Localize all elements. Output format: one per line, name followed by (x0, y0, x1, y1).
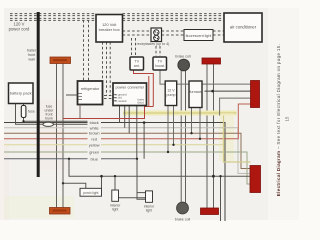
svg-text:yellow: yellow (89, 142, 100, 147)
svg-text:trailer: trailer (27, 49, 37, 53)
svg-text:refrigerator: refrigerator (81, 87, 100, 91)
svg-text:(four): (four) (138, 101, 145, 105)
svg-text:15: 15 (285, 116, 290, 121)
svg-text:brown: brown (89, 131, 100, 136)
svg-text:green: green (89, 150, 99, 155)
svg-text:light: light (146, 209, 152, 213)
svg-text:front: front (28, 53, 35, 57)
svg-text:receptacles (up to 4): receptacles (up to 4) (137, 42, 170, 46)
svg-text:pump: pump (167, 93, 176, 97)
svg-text:brake coil: brake coil (175, 218, 191, 222)
svg-text:12 V: 12 V (167, 89, 175, 93)
svg-text:power cord: power cord (9, 27, 30, 32)
svg-text:air conditioner: air conditioner (230, 25, 257, 30)
svg-text:battery pack: battery pack (10, 91, 32, 96)
svg-text:brake coil: brake coil (175, 55, 191, 59)
svg-text:fuse: fuse (28, 110, 35, 114)
svg-text:TV: TV (135, 60, 140, 64)
svg-text:red: red (91, 136, 97, 141)
svg-text:TV: TV (158, 60, 163, 64)
svg-text:light: light (112, 208, 118, 212)
svg-text:Electrical Diagram – See text: Electrical Diagram – See text for Electr… (276, 44, 281, 196)
svg-text:ant.: ant. (134, 64, 140, 68)
svg-text:furnace: furnace (190, 90, 202, 94)
svg-text:black: black (90, 120, 99, 125)
svg-text:white: white (90, 125, 99, 130)
svg-text:fluorescent light: fluorescent light (186, 34, 212, 38)
svg-text:breaker box: breaker box (99, 27, 120, 32)
svg-text:porch light: porch light (83, 191, 98, 195)
svg-text:boost: boost (155, 64, 164, 68)
svg-text:trunk: trunk (45, 117, 53, 121)
svg-text:power converter: power converter (115, 85, 144, 90)
svg-text:blue: blue (91, 156, 98, 161)
svg-text:dc neutral: dc neutral (115, 99, 127, 103)
svg-text:wall: wall (28, 58, 35, 62)
